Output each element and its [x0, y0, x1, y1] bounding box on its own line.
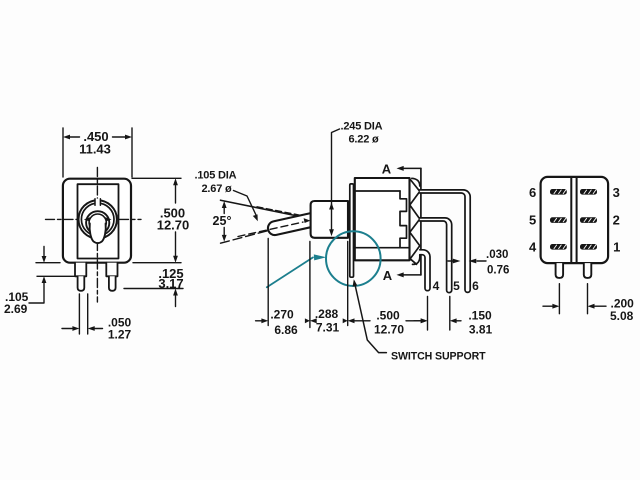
side view: upper travel limit line	[221, 200, 312, 219]
svg-text:.105 DIA: .105 DIA	[195, 170, 237, 182]
side view: terminal base top cap	[412, 178, 420, 186]
svg-text:6: 6	[472, 279, 479, 293]
dimension .105 extension lines	[36, 263, 75, 277]
svg-text:0.76: 0.76	[487, 265, 509, 277]
svg-text:.150: .150	[468, 309, 492, 323]
terminal 1 pad	[580, 244, 597, 250]
terminal wire pin 4	[420, 250, 430, 291]
side view: terminal base bottom cap	[413, 255, 420, 264]
svg-text:.500: .500	[376, 309, 400, 323]
dimension .500 arrows (side view)	[353, 320, 423, 322]
front view: bushing ring inner circle	[81, 203, 114, 236]
terminal 4 pad	[550, 244, 567, 250]
terminal 2 pad	[580, 217, 597, 223]
side view: body outline	[355, 178, 410, 260]
terminal 5 pad	[550, 217, 567, 223]
side view: upper phantom dashed line	[257, 207, 311, 218]
dimension .200 extension lines	[559, 284, 587, 314]
section arrow A top	[403, 167, 421, 169]
svg-text:11.43: 11.43	[79, 142, 111, 157]
switch support leader	[354, 282, 386, 353]
dimension .150 arrows	[414, 320, 461, 322]
svg-text:6.22 ø: 6.22 ø	[349, 134, 379, 146]
svg-text:3: 3	[613, 185, 620, 200]
bottom view: housing outline	[541, 177, 609, 263]
svg-text:3.81: 3.81	[469, 323, 493, 337]
dimension .030 arrows	[448, 260, 486, 262]
svg-text:5.08: 5.08	[610, 309, 634, 323]
dimension .500 dim line with arrows	[175, 185, 177, 256]
svg-text:A: A	[383, 268, 393, 283]
teal leader arrow	[267, 257, 313, 287]
dimension .200 arrows	[543, 305, 606, 307]
dimension .105 lower arrow and leader	[29, 283, 44, 304]
front view: inner frame rect	[78, 184, 119, 258]
dimension .050 arrows	[62, 328, 103, 330]
bottom view: left mounting pin	[556, 263, 564, 278]
bottom view: center parting double line	[571, 178, 576, 263]
front view: vertical centerline	[96, 168, 98, 303]
svg-text:5: 5	[529, 213, 536, 228]
svg-text:7.31: 7.31	[316, 321, 340, 335]
side view: terminal zigzag wedges	[410, 179, 420, 265]
side view: switch support plate	[350, 184, 354, 277]
side view: body inner top line	[355, 190, 400, 192]
front view: keyway slot at ring top	[95, 199, 100, 206]
side view: lower travel limit dash-dot line	[221, 230, 272, 243]
side view: bushing cylinder	[311, 201, 348, 238]
side view: lever centerline arrowhead at bushing	[304, 218, 311, 223]
dimension .105 upper arrow	[43, 247, 45, 257]
svg-text:A: A	[382, 162, 392, 177]
svg-text:6.86: 6.86	[274, 323, 298, 337]
svg-text:.288: .288	[315, 307, 339, 321]
front view: horizontal centerline	[46, 218, 142, 220]
bottom dimension chain extension lines	[268, 239, 450, 331]
terminal 3 pad	[580, 189, 597, 195]
side view: toggle lever bat	[267, 213, 313, 236]
svg-text:2.67 ø: 2.67 ø	[202, 183, 232, 195]
front view: toggle dome circle	[86, 211, 109, 234]
section line A-A	[420, 168, 422, 275]
svg-text:12.70: 12.70	[157, 218, 190, 233]
dimension .245 DIA leader and arrows	[332, 129, 340, 230]
svg-text:1.27: 1.27	[108, 328, 132, 342]
dimension 25 deg arrows	[223, 207, 225, 236]
dimension .450 extension lines	[63, 128, 132, 177]
terminal wire pin 5	[420, 218, 452, 293]
side view: lever dashed centerline	[238, 222, 303, 236]
dimension .500 extension lines	[132, 178, 181, 262]
section arrow A bottom	[403, 274, 421, 276]
dimension .050 extension lines	[79, 294, 87, 334]
svg-text:SWITCH SUPPORT: SWITCH SUPPORT	[391, 351, 486, 363]
terminal wire pin 6	[420, 190, 470, 292]
front view: dome inner arc	[89, 214, 106, 225]
svg-text:4: 4	[529, 240, 537, 255]
side view: body inner wall with terminal notches	[400, 191, 407, 248]
front view: right pin upper wide segment	[106, 263, 117, 277]
svg-text:2.69: 2.69	[4, 302, 28, 316]
svg-text:5: 5	[453, 279, 460, 293]
dimension .270 arrows	[256, 320, 263, 322]
front view: centerline arrow right	[105, 217, 111, 221]
terminal 6 pad	[550, 189, 567, 195]
svg-text:2: 2	[613, 213, 620, 228]
front view: right pin lower narrow segment	[109, 276, 116, 291]
svg-text:1: 1	[613, 240, 620, 255]
front view: toggle lever teardrop	[90, 224, 106, 244]
dimension .105 DIA leader line	[234, 191, 257, 217]
dimension .288 arrows	[305, 318, 348, 323]
dimension .450 dim line with arrows	[69, 136, 126, 138]
side view: body inner bottom line	[355, 247, 410, 249]
svg-text:.270: .270	[270, 308, 294, 322]
teal inspection circle	[326, 231, 381, 286]
svg-text:4: 4	[433, 279, 440, 293]
front view: switch body outline	[63, 179, 131, 263]
front view: left pin upper wide segment	[75, 263, 86, 277]
svg-text:.030: .030	[486, 249, 508, 261]
front view: left pin lower narrow segment	[78, 276, 85, 291]
svg-text:25°: 25°	[213, 214, 232, 228]
dimension .125 extension line and lower arrow	[124, 288, 183, 290]
svg-text:.245 DIA: .245 DIA	[341, 121, 383, 133]
front view: centerline arrow left	[84, 217, 90, 221]
svg-text:6: 6	[529, 185, 536, 200]
front view: bushing ring outer circle	[79, 200, 117, 238]
svg-text:12.70: 12.70	[374, 323, 404, 337]
bottom view: right mounting pin	[584, 263, 592, 278]
